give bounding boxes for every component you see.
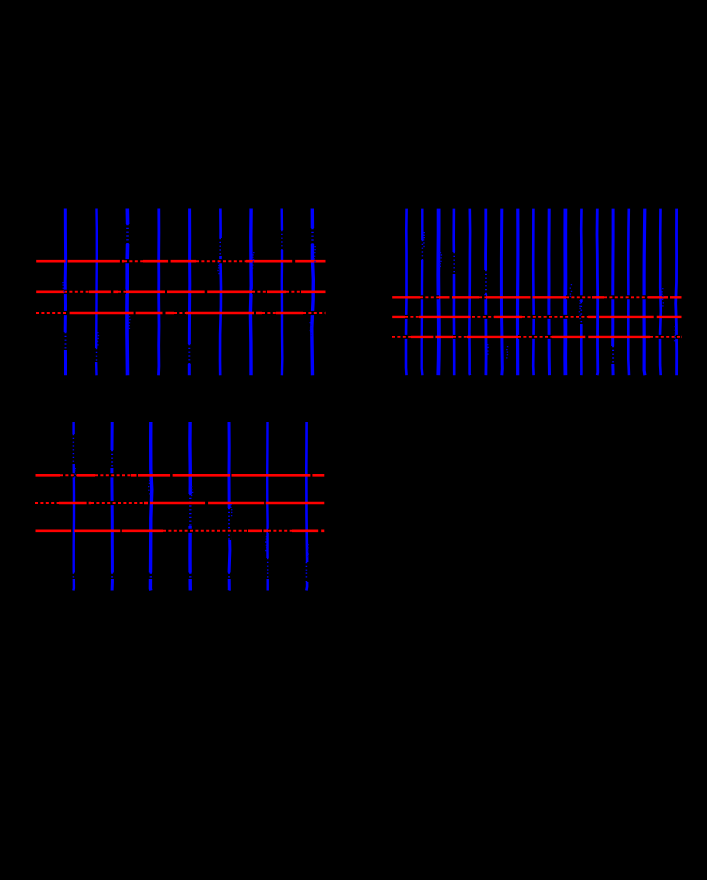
- plot B blue level line 10: [547, 209, 551, 376]
- plot A blue level line 2: [95, 209, 98, 376]
- plot B red level row 2: [392, 316, 681, 318]
- plot B red level row 1: [392, 296, 681, 298]
- plot B blue level line 4: [452, 209, 455, 376]
- plot A blue level line 5: [188, 209, 192, 376]
- plot C blue level line 2: [110, 422, 114, 591]
- plot C red level row 2: [36, 502, 325, 505]
- plot A red level row 2: [36, 290, 325, 293]
- plot B blue level line 2: [421, 209, 424, 376]
- plot B blue level line 8: [516, 209, 520, 376]
- plot B blue level line 5: [468, 209, 471, 376]
- plot A red level row 3: [36, 312, 325, 315]
- plot B blue level line 9: [532, 209, 535, 376]
- plot B blue level line 3: [436, 209, 440, 376]
- plot B blue level line 6: [484, 209, 487, 376]
- stray data specks near level crossings: [63, 232, 675, 557]
- plot A blue level line 6: [220, 209, 221, 376]
- plot B blue level line 16: [642, 209, 646, 376]
- plot B blue level line 14: [611, 209, 615, 376]
- plot C blue level line 3: [150, 422, 151, 591]
- plot C blue level line 1: [72, 422, 75, 591]
- plot B red level row 3: [392, 336, 681, 338]
- plot A blue level line 3: [125, 209, 129, 376]
- plot C blue level line 4: [188, 422, 192, 591]
- plot C red level row 3: [36, 529, 325, 532]
- plot A blue level line 8: [281, 209, 284, 376]
- plot B blue level line 1: [405, 209, 408, 376]
- plot A blue level line 1: [64, 209, 67, 376]
- plot B blue level line 7: [500, 209, 504, 376]
- plot C blue level line 6: [266, 422, 269, 591]
- plot A red level row 1: [36, 260, 325, 263]
- plot B blue level line 18: [676, 209, 677, 376]
- plot B blue level line 17: [659, 209, 662, 376]
- plot C blue level line 5: [228, 422, 232, 591]
- plot A blue level line 4: [157, 209, 160, 376]
- plot C blue level line 7: [305, 422, 308, 591]
- plot B blue level line 12: [580, 209, 583, 376]
- plot B blue level line 15: [627, 209, 630, 376]
- plot A blue level line 7: [249, 209, 253, 376]
- plot A blue level line 9: [312, 209, 314, 376]
- plot C red level row 1: [36, 474, 325, 477]
- plot B blue level line 13: [596, 209, 600, 376]
- plot B blue level line 11: [563, 209, 567, 376]
